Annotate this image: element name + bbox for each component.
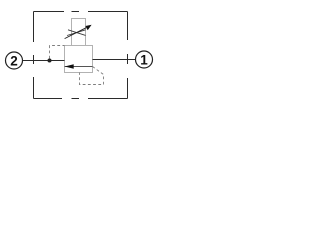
boundary bottom wire — [34, 98, 128, 100]
valve body box — [65, 46, 93, 73]
boundary left wire — [33, 12, 35, 99]
svg-text:1: 1 — [140, 52, 148, 67]
flow arrow — [65, 64, 74, 69]
boundary top wire — [34, 11, 128, 13]
port 1 line — [93, 59, 136, 61]
svg-text:2: 2 — [10, 53, 18, 68]
pilot line dashed — [50, 46, 65, 59]
junction dot — [48, 59, 52, 63]
port 2 line — [23, 60, 65, 62]
flow path line — [65, 66, 93, 68]
boundary right wire — [127, 12, 129, 99]
port 2 circle — [6, 52, 23, 69]
adjustment arrow — [65, 25, 92, 39]
port 1 circle — [136, 51, 153, 68]
drain line dashed — [80, 67, 104, 85]
spring box — [72, 19, 86, 46]
spring S1 — [67, 30, 86, 36]
